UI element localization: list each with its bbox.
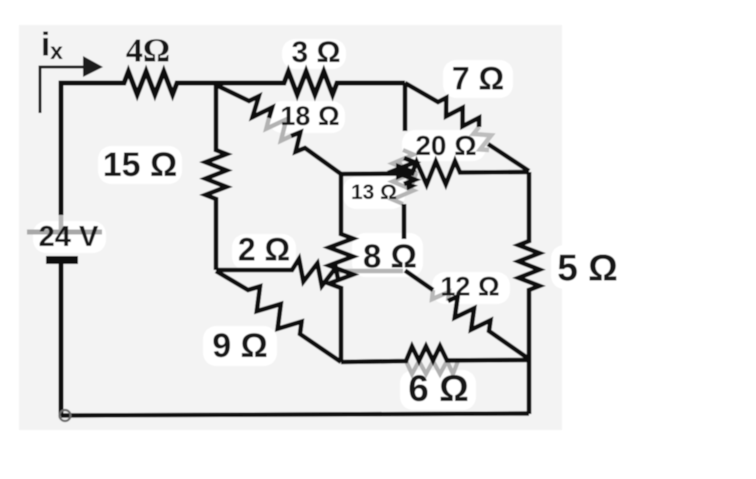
halo 15-ohm: [98, 146, 182, 184]
wire left upper from corner to battery plate: [59, 81, 64, 215]
svg-text:2 Ω: 2 Ω: [238, 232, 290, 268]
svg-text:24 V: 24 V: [39, 221, 99, 253]
battery V1 bottom plate (short thick): [46, 256, 78, 264]
svg-text:5 Ω: 5 Ω: [557, 248, 618, 289]
wire right I2 through resistor R13 5-ohm to C2 and bottom corner: [519, 172, 540, 414]
svg-text:12 Ω: 12 Ω: [440, 272, 499, 302]
resistor R11 12-ohm black zigzag to corner C2: [448, 296, 529, 359]
svg-text:4Ω: 4Ω: [126, 33, 170, 70]
wire B1 to J with resistor R9 2-ohm black part: [216, 259, 338, 286]
svg-text:9 Ω: 9 Ω: [212, 327, 268, 365]
halo 9-ohm: [203, 326, 277, 366]
gray 2-ohm wire under 8-ohm halo: [338, 269, 403, 273]
halo 7-ohm: [443, 60, 513, 98]
wire inner-bottom C1 to C2 with resistor R12 6-ohm: [341, 346, 529, 362]
halo 3-ohm: [282, 39, 346, 69]
halo 8-ohm: [352, 233, 423, 277]
gray 6-ohm shadow teeth below wire: [406, 361, 458, 374]
wire bottom: [61, 414, 529, 416]
wire inner-left I1 to C1 with resistor R8 8-ohm: [329, 174, 353, 362]
halo 13-ohm: [343, 177, 405, 209]
current arrow ix elbow: [40, 67, 86, 113]
svg-text:18 Ω: 18 Ω: [280, 101, 339, 131]
wire inner-top I1 to I2 with resistor R7 20-ohm: [341, 161, 529, 185]
halo 5-ohm: [551, 245, 625, 289]
node terminal circle bottom-left: [60, 410, 71, 421]
arrowhead artifact on inner-top wire: [396, 163, 417, 180]
wire top with resistor R1 4-ohm and resistor R2 3-ohm: [59, 72, 405, 95]
svg-text:6 Ω: 6 Ω: [408, 368, 469, 409]
small arrowhead artifact below: [406, 182, 418, 191]
wire left lower battery to bottom-left corner: [59, 260, 64, 416]
halo 6-ohm: [400, 370, 476, 410]
wire T2 vertical upper segment: [403, 83, 408, 131]
resistor R4 18-ohm upper black section from node T1: [216, 85, 272, 118]
resistor R5 13-ohm black middle teeth: [393, 158, 415, 184]
halo 18-ohm: [269, 101, 345, 133]
wire below 13-ohm to node J: [402, 204, 407, 239]
gray 7-ohm zigzag tail under halo edge: [473, 127, 491, 150]
svg-text:13 Ω: 13 Ω: [351, 181, 397, 204]
gray 20-ohm teeth left of resistor: [396, 164, 416, 185]
gray 13-ohm resistor zigzag underlayer: [393, 150, 414, 204]
resistor R10 9-ohm diagonal from node B1 to corner C1: [216, 271, 341, 362]
halo 12-ohm: [432, 272, 510, 304]
wire T1 to B1 with resistor R3 15-ohm: [206, 83, 227, 270]
svg-text:8 Ω: 8 Ω: [363, 238, 417, 275]
canvas background: [19, 25, 562, 430]
battery V1 top plate (long gray bar): [27, 230, 102, 235]
resistor R6 7-ohm lower lead to inner node I2: [488, 144, 529, 171]
current arrow ix head: [83, 56, 103, 77]
svg-text:3 Ω: 3 Ω: [291, 36, 340, 69]
gray wire stub under 24V halo: [59, 215, 64, 232]
gray 18-ohm zigzag section under halo: [266, 118, 291, 141]
svg-text:20 Ω: 20 Ω: [415, 130, 476, 161]
halo 20-ohm: [402, 130, 486, 161]
resistor R4 18-ohm lower black teeth and lead to inner node I1: [291, 132, 341, 174]
gray 12-ohm teeth under halo: [432, 290, 449, 301]
halo 2-ohm: [232, 234, 296, 270]
svg-text:15 Ω: 15 Ω: [103, 146, 178, 184]
svg-text:7 Ω: 7 Ω: [452, 61, 504, 97]
resistor R11 12-ohm diagonal: black lead from node J: [405, 271, 433, 291]
resistor R6 7-ohm black section from node T2: [405, 83, 479, 127]
halo 24V: [33, 221, 106, 253]
